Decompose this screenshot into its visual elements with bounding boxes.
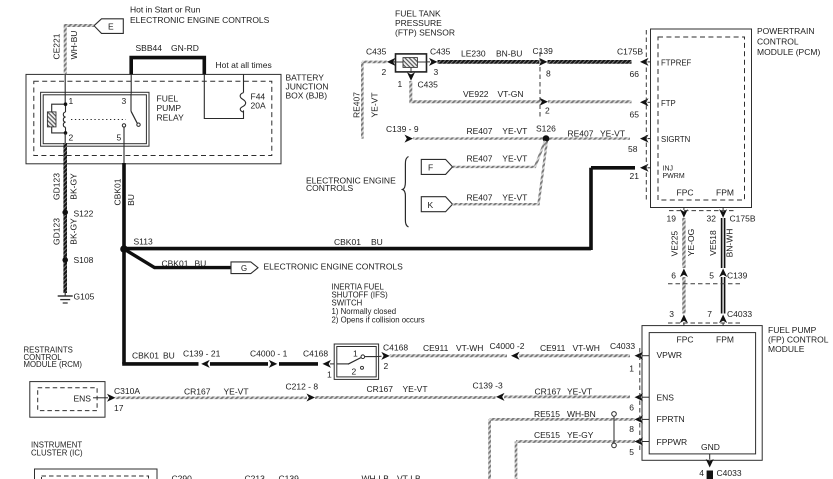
svg-text:CBK01: CBK01 (132, 351, 159, 361)
wire RE515 WH-BN FPRTN (490, 419, 635, 479)
svg-text:YE-VT: YE-VT (567, 387, 592, 397)
relay coil parallel resistor (52, 104, 66, 133)
svg-text:C4033: C4033 (727, 309, 752, 319)
svg-text:FUEL TANK: FUEL TANK (395, 9, 441, 19)
svg-text:2: 2 (352, 367, 357, 377)
relay switch pin 3 lead (130, 94, 132, 111)
svg-text:CE515: CE515 (534, 430, 560, 440)
svg-text:RELAY: RELAY (157, 113, 185, 123)
battery junction box label (286, 73, 329, 101)
connector flag K (421, 197, 452, 212)
wire SBB44 GN-RD thick loop (131, 58, 204, 75)
svg-text:3: 3 (122, 96, 127, 106)
svg-text:YE-VT: YE-VT (370, 92, 380, 117)
connector C139 dashed boundary (668, 283, 742, 285)
svg-text:C175B: C175B (730, 214, 756, 224)
svg-text:Hot in Start or Run: Hot in Start or Run (130, 5, 201, 15)
svg-text:VE922: VE922 (463, 89, 489, 99)
svg-text:C139: C139 (279, 474, 300, 479)
svg-text:C435: C435 (418, 80, 439, 90)
svg-text:1: 1 (353, 348, 358, 358)
PCM label (757, 26, 820, 57)
svg-text:C4168: C4168 (383, 343, 408, 353)
svg-text:LE230: LE230 (461, 49, 486, 59)
svg-text:BK-GY: BK-GY (69, 173, 79, 200)
svg-text:S113: S113 (134, 237, 153, 247)
svg-text:BN-BU: BN-BU (496, 49, 522, 59)
svg-text:C4000 - 1: C4000 - 1 (250, 349, 288, 359)
wire GD123 BK-GY from relay pin 2 to ground (64, 133, 66, 145)
svg-text:2: 2 (69, 133, 74, 143)
svg-text:PUMP: PUMP (157, 103, 182, 113)
svg-text:VE518: VE518 (708, 230, 718, 256)
svg-text:YE-VT: YE-VT (502, 154, 527, 164)
svg-text:C212 - 8: C212 - 8 (286, 382, 319, 392)
ground G105 (64, 291, 66, 296)
restraints control module (RCM) box (30, 382, 105, 418)
svg-text:F: F (428, 163, 433, 173)
svg-text:C4168: C4168 (303, 349, 328, 359)
bottom clipped connector labels (172, 474, 421, 479)
svg-text:1: 1 (69, 96, 74, 106)
svg-text:G: G (241, 264, 247, 273)
svg-text:BOX (BJB): BOX (BJB) (286, 91, 328, 101)
header text Hot in Start or Run (130, 5, 270, 26)
svg-text:VT-WH: VT-WH (573, 343, 600, 353)
svg-text:3: 3 (669, 309, 674, 319)
svg-text:BU: BU (163, 351, 175, 361)
svg-text:C4033: C4033 (717, 468, 742, 478)
svg-text:FPM: FPM (716, 335, 734, 345)
FTP sensor internal resistor element (403, 58, 417, 68)
svg-text:YE-VT: YE-VT (502, 193, 527, 203)
svg-text:SBB44: SBB44 (136, 43, 163, 53)
brace for electronic engine controls (403, 157, 409, 228)
connector flag G (231, 262, 258, 274)
svg-text:YE-VT: YE-VT (224, 387, 249, 397)
wire CE221 WH-BU from flag E to relay pin 1 (65, 26, 94, 75)
wire CE515 YE-GY FPPWR (516, 442, 635, 479)
svg-text:RE407: RE407 (352, 92, 362, 118)
svg-text:3: 3 (434, 67, 439, 77)
connector flag F (421, 159, 452, 174)
svg-text:S126: S126 (536, 124, 556, 134)
svg-text:VPWR: VPWR (657, 350, 683, 360)
svg-text:C310A: C310A (114, 386, 140, 396)
svg-text:FTPREF: FTPREF (661, 59, 692, 68)
svg-text:BU: BU (195, 259, 207, 269)
svg-text:ENS: ENS (657, 393, 675, 403)
svg-text:S122: S122 (74, 209, 94, 219)
splice S113 (120, 245, 128, 253)
svg-text:YE-VT: YE-VT (600, 129, 625, 139)
svg-text:BU: BU (371, 237, 383, 247)
twisted pair symbol (612, 412, 617, 417)
connector C175B dashed boundary at PCM left (645, 30, 647, 200)
wire CE911 VT-WH second segment (519, 354, 630, 357)
svg-text:8: 8 (629, 424, 634, 434)
svg-text:FPM: FPM (716, 188, 734, 198)
splice S126 (543, 135, 550, 142)
connector C139 dashed boundary vertical (539, 52, 541, 118)
instrument cluster label (31, 441, 83, 458)
svg-text:CE911: CE911 (423, 343, 449, 353)
relay pin 1 node (64, 102, 68, 106)
svg-text:VE225: VE225 (670, 231, 680, 257)
svg-text:VT-WH: VT-WH (456, 343, 483, 353)
svg-text:2: 2 (384, 361, 389, 371)
relay switch pin 5 contact (122, 124, 125, 127)
instrument cluster (IC) box (35, 469, 158, 479)
connector C4033 dashed boundary (668, 322, 742, 324)
svg-text:FUEL PUMP: FUEL PUMP (768, 325, 817, 335)
relay actuation dotted line (71, 119, 126, 121)
svg-text:2: 2 (545, 106, 550, 116)
wire CBK01 BU from S113 to flag G (124, 249, 231, 268)
wire CBK01 BU from relay pin 5 down (123, 127, 125, 164)
svg-text:CE221: CE221 (51, 33, 61, 59)
relay coil between pins 1 and 2 (65, 104, 67, 112)
FTP sensor label (395, 9, 455, 38)
fuse F44 label (251, 92, 266, 111)
IFS switch note text (332, 283, 425, 325)
svg-text:RE407: RE407 (467, 154, 493, 164)
fuse F44 element (240, 93, 245, 113)
powertrain control module (PCM) box (651, 29, 752, 208)
fuel pump (FP) control module box (642, 326, 762, 461)
svg-text:(FP) CONTROL: (FP) CONTROL (768, 335, 829, 345)
relay pin 2 node (64, 131, 68, 135)
svg-text:PRESSURE: PRESSURE (395, 18, 442, 28)
svg-text:C435: C435 (366, 47, 387, 57)
splice S122 (62, 210, 68, 216)
connector C139 pin 2 (540, 98, 549, 106)
svg-text:FTP: FTP (661, 99, 676, 108)
svg-text:C175B: C175B (617, 47, 643, 57)
svg-text:2: 2 (382, 67, 387, 77)
svg-text:VT-LB: VT-LB (397, 474, 421, 479)
fuse F44 20A feed wire (204, 74, 243, 118)
svg-text:C139 - 21: C139 - 21 (183, 349, 221, 359)
svg-text:RE407: RE407 (568, 129, 594, 139)
svg-text:6: 6 (671, 271, 676, 281)
wire CR167 YE-VT ENS from RCM to FP (93, 397, 108, 399)
svg-text:INJ: INJ (663, 166, 674, 173)
svg-text:K: K (428, 200, 434, 210)
svg-text:YE-VT: YE-VT (403, 384, 428, 394)
electronic engine controls label (306, 176, 396, 194)
svg-text:1: 1 (327, 370, 332, 380)
fuel pump relay box (41, 92, 149, 146)
svg-text:1: 1 (629, 364, 634, 374)
splice S108 (62, 257, 68, 263)
svg-text:CBK01: CBK01 (334, 237, 361, 247)
svg-text:C139: C139 (727, 271, 748, 281)
svg-text:C4000 -2: C4000 -2 (490, 341, 525, 351)
svg-text:YE-OG: YE-OG (686, 229, 696, 256)
svg-text:BU: BU (126, 194, 136, 206)
svg-text:1: 1 (398, 79, 403, 89)
svg-text:17: 17 (114, 403, 124, 413)
svg-text:C435: C435 (430, 47, 451, 57)
wire BN-BU C139 to PCM FTPREF (548, 60, 632, 64)
wire CE911 VT-WH from IFS to FP VPWR (390, 354, 507, 357)
svg-text:CBK01: CBK01 (113, 178, 123, 205)
wire VE518 BN-WH from PCM FPM to FP FPM (722, 208, 724, 211)
svg-text:32: 32 (707, 214, 717, 224)
svg-text:5: 5 (117, 133, 122, 143)
svg-text:C139 - 9: C139 - 9 (386, 124, 419, 134)
svg-text:GD123: GD123 (51, 173, 61, 200)
svg-text:FPC: FPC (677, 335, 694, 345)
svg-text:19: 19 (667, 214, 677, 224)
svg-text:FPC: FPC (677, 188, 694, 198)
connector C175B dashed boundary below PCM (669, 210, 734, 212)
svg-text:RE407: RE407 (467, 193, 493, 203)
svg-text:FPPWR: FPPWR (657, 437, 688, 447)
svg-text:CR167: CR167 (184, 387, 211, 397)
svg-text:ELECTRONIC ENGINE CONTROLS: ELECTRONIC ENGINE CONTROLS (130, 15, 270, 25)
svg-text:GD123: GD123 (51, 218, 61, 245)
fuel pump relay label (157, 94, 185, 123)
svg-text:C213: C213 (245, 474, 266, 479)
FP control module label (768, 325, 829, 354)
connector C4033 dashed boundary at FP left (639, 348, 641, 452)
wire VE225 YE-OG from PCM FPC to FP FPC (683, 208, 685, 211)
svg-text:C290: C290 (172, 474, 193, 479)
connector flag E (94, 19, 123, 34)
svg-text:C139 -3: C139 -3 (473, 381, 504, 391)
svg-text:MODULE (PCM): MODULE (PCM) (757, 47, 820, 57)
wire RE407 YE-VT from flag F to S126 (453, 141, 546, 167)
svg-text:SIGRTN: SIGRTN (661, 135, 690, 144)
IFS switch internals (337, 363, 349, 365)
svg-text:CR167: CR167 (535, 387, 562, 397)
svg-text:MODULE (RCM): MODULE (RCM) (24, 360, 83, 369)
svg-text:Hot at all times: Hot at all times (216, 60, 272, 70)
svg-text:YE-VT: YE-VT (502, 126, 527, 136)
svg-text:20A: 20A (251, 101, 266, 111)
svg-text:GN-RD: GN-RD (171, 43, 199, 53)
svg-text:POWERTRAIN: POWERTRAIN (757, 26, 814, 36)
wire CBK01 BU from S113 to PCM INJ PWRM (124, 168, 635, 250)
svg-text:8: 8 (546, 69, 551, 79)
svg-text:4: 4 (699, 468, 704, 478)
svg-text:6: 6 (629, 403, 634, 413)
svg-text:7: 7 (707, 309, 712, 319)
relay switch blade (131, 111, 137, 123)
svg-text:BK-GY: BK-GY (69, 218, 79, 245)
svg-text:YE-GY: YE-GY (567, 430, 594, 440)
svg-text:BN-WH: BN-WH (725, 229, 735, 258)
RCM label (24, 346, 83, 370)
svg-text:RE407: RE407 (467, 126, 493, 136)
svg-text:S108: S108 (74, 255, 94, 265)
FTP sensor box (396, 54, 427, 72)
svg-text:CR167: CR167 (367, 384, 394, 394)
wire LE230 BN-BU sensor to C139 (427, 61, 431, 63)
svg-text:C4033: C4033 (610, 341, 635, 351)
svg-text:FPRTN: FPRTN (657, 414, 685, 424)
svg-text:CBK01: CBK01 (162, 259, 189, 269)
svg-text:PWRM: PWRM (663, 173, 685, 180)
svg-text:WH-BN: WH-BN (567, 409, 596, 419)
inertia fuel shutoff (IFS) switch box (334, 344, 378, 379)
svg-text:ELECTRONIC ENGINE CONTROLS: ELECTRONIC ENGINE CONTROLS (264, 262, 404, 272)
svg-text:CONTROL: CONTROL (757, 37, 799, 47)
svg-text:(FTP) SENSOR: (FTP) SENSOR (395, 28, 455, 38)
svg-text:GND: GND (701, 442, 720, 452)
wire CBK01 BU from S113 down to IFS switch (124, 362, 318, 364)
svg-text:E: E (108, 22, 114, 32)
svg-text:WH-BU: WH-BU (69, 31, 79, 60)
svg-text:CLUSTER (IC): CLUSTER (IC) (31, 449, 83, 458)
svg-text:5: 5 (629, 447, 634, 457)
svg-text:FUEL: FUEL (157, 94, 179, 104)
svg-text:MODULE: MODULE (768, 344, 805, 354)
PCM pin 21 arrow (640, 164, 649, 172)
svg-text:ENS: ENS (74, 394, 92, 404)
svg-text:G105: G105 (74, 292, 95, 302)
svg-text:2) Opens if collision occurs: 2) Opens if collision occurs (332, 316, 425, 325)
svg-text:VT-GN: VT-GN (498, 89, 524, 99)
svg-text:21: 21 (630, 171, 640, 181)
svg-text:5: 5 (709, 271, 714, 281)
wire from sensor pin 2 to RE407 vertical (392, 61, 396, 63)
svg-text:CONTROLS: CONTROLS (306, 183, 354, 193)
svg-text:66: 66 (630, 69, 640, 79)
svg-text:WH-LB: WH-LB (362, 474, 390, 479)
svg-text:C139: C139 (533, 46, 554, 56)
battery junction box (BJB) outline (26, 74, 281, 163)
svg-text:58: 58 (628, 144, 638, 154)
svg-text:65: 65 (630, 110, 640, 120)
wire RE407 YE-VT from flag K to S126 (453, 142, 547, 205)
wire VE922 VT-GN from sensor pin 1 (410, 72, 412, 73)
svg-text:CE911: CE911 (540, 343, 566, 353)
svg-text:RE515: RE515 (534, 409, 560, 419)
